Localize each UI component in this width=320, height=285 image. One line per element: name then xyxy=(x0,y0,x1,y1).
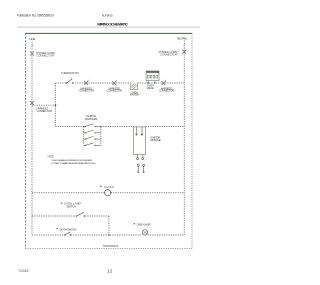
oven valve box xyxy=(146,71,159,81)
outer border left xyxy=(25,33,27,248)
junction dot xyxy=(55,104,57,106)
svg-text:CLOCK: CLOCK xyxy=(104,185,114,189)
svg-text:OVEN LAMP: OVEN LAMP xyxy=(137,223,151,227)
svg-text:SWITCH: SWITCH xyxy=(66,205,75,209)
junction dot bank left xyxy=(83,126,85,128)
wire right rail xyxy=(183,41,185,236)
label OVEN LAMP xyxy=(134,223,136,225)
connector X harness x163.5 xyxy=(162,81,166,85)
svg-text:CONNECTOR: CONNECTOR xyxy=(37,54,54,58)
svg-text:SWITCHES: SWITCHES xyxy=(85,117,98,121)
oven igniter dip xyxy=(131,83,138,89)
svg-text:Publication No. 5995538919: Publication No. 5995538919 xyxy=(17,14,54,18)
oven lamp xyxy=(142,230,147,235)
svg-text:NOTE:: NOTE: xyxy=(48,156,55,159)
svg-text:THERMOSTAT: THERMOSTAT xyxy=(61,71,79,75)
wire oven lamp switch y215 xyxy=(32,215,76,217)
header rule xyxy=(17,26,200,28)
module bottom leads xyxy=(137,154,139,157)
svg-text:WIRING SCHEMATIC: WIRING SCHEMATIC xyxy=(97,23,128,27)
wire bottom y235 xyxy=(32,234,65,236)
svg-text:FLF343D: FLF343D xyxy=(102,14,114,18)
wire clock y192.8 xyxy=(32,192,105,194)
svg-text:5995538919: 5995538919 xyxy=(103,244,119,248)
junction dot bank right xyxy=(100,126,102,128)
valve coils xyxy=(148,75,152,79)
connector X left power cord xyxy=(30,52,34,56)
clock motor xyxy=(105,190,111,196)
ignitor switch row 2 xyxy=(84,130,101,133)
svg-text:12: 12 xyxy=(107,268,113,273)
connector X right power cord xyxy=(182,50,186,54)
outer border top xyxy=(26,32,193,34)
wire rail to branch y105 xyxy=(32,104,55,106)
svg-text:NEUTRAL: NEUTRAL xyxy=(177,36,188,40)
svg-text:CONNECTOR: CONNECTOR xyxy=(107,89,122,93)
module top pins xyxy=(135,127,137,134)
svg-text:CONNECTOR: CONNECTOR xyxy=(159,89,174,93)
svg-text:CONNECTOR: CONNECTOR xyxy=(160,53,177,57)
connector X harness on left rail xyxy=(30,101,34,105)
power cord strain jog right xyxy=(184,44,186,46)
outer border right xyxy=(191,33,193,248)
svg-text:1. SWITCHES ARE SHOWN WITH DOO: 1. SWITCHES ARE SHOWN WITH DOOR CLOSED A… xyxy=(51,159,93,162)
label CLOCK xyxy=(100,186,102,188)
svg-text:2. CONNECTORS ARE VIEWED FROM: 2. CONNECTORS ARE VIEWED FROM WIRE SIDE … xyxy=(51,162,96,165)
svg-text:DOOR SWITCH: DOOR SWITCH xyxy=(60,227,77,231)
power cord strain jog left xyxy=(31,45,33,47)
svg-text:VALVE: VALVE xyxy=(146,86,153,90)
svg-text:IGNITER: IGNITER xyxy=(130,93,139,97)
wire module to right rail xyxy=(146,126,185,128)
svg-text:LINE: LINE xyxy=(29,37,35,41)
label OVEN LAMP SWITCH xyxy=(61,202,63,204)
label DOOR SWITCH xyxy=(57,228,59,230)
wire branch to switch bank xyxy=(55,126,83,128)
svg-text:CONNECTOR: CONNECTOR xyxy=(78,89,93,93)
door switch xyxy=(64,234,66,236)
valve leads xyxy=(147,81,149,83)
wire bank to module xyxy=(101,126,134,128)
wire branch vertical x55.4 xyxy=(54,83,56,127)
ignitor switch row 4 xyxy=(84,143,101,146)
wire top circuit y83 xyxy=(55,82,66,84)
ignitor switch row 1 xyxy=(84,124,101,127)
svg-text:7/2002: 7/2002 xyxy=(18,269,28,273)
spark electrodes xyxy=(137,164,139,166)
ignitor switch bank buses xyxy=(83,127,85,146)
wire lamp drop x108.9 xyxy=(108,216,110,235)
ignitor switch row 3 xyxy=(84,136,101,139)
connector X harness x86 xyxy=(84,81,88,85)
svg-text:MODULE: MODULE xyxy=(150,138,160,142)
connector X harness x114 xyxy=(112,81,116,85)
ignitor module box xyxy=(134,127,146,154)
oven lamp switch xyxy=(76,215,78,217)
thermostat TH xyxy=(66,82,68,84)
outer border bottom xyxy=(26,248,193,250)
wire left rail xyxy=(31,42,33,236)
svg-text:CONNECTOR: CONNECTOR xyxy=(37,109,52,113)
